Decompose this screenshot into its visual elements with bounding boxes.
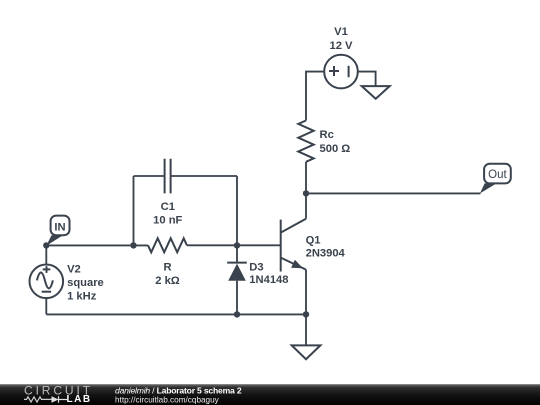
IN flag	[46, 216, 69, 246]
svg-text:square: square	[67, 277, 104, 289]
svg-text:C1: C1	[161, 201, 175, 213]
svg-text:IN: IN	[54, 222, 65, 234]
svg-text:10 nF: 10 nF	[153, 214, 182, 226]
wire from V1 right terminal to ground	[358, 72, 376, 87]
voltage source V2 circle	[30, 265, 64, 299]
Q1 base bar	[280, 220, 282, 272]
wire V2 bottom to bottom rail	[45, 298, 47, 314]
V1 minus bar	[348, 66, 350, 77]
svg-text:D3: D3	[249, 261, 263, 273]
resistor Rc	[298, 121, 313, 162]
svg-text:R: R	[163, 261, 171, 273]
C1 top wire right segment	[171, 175, 237, 177]
svg-text:2N3904: 2N3904	[306, 247, 346, 259]
wire D3 node down to cathode bar	[236, 245, 238, 262]
V2 plus sign	[43, 266, 51, 273]
diode D3 cathode bar	[227, 262, 247, 264]
svg-text:2 kΩ: 2 kΩ	[155, 275, 180, 287]
svg-text:Out: Out	[488, 169, 507, 181]
Q1 emitter wire down to bottom node	[305, 270, 307, 315]
V2 sine wave	[37, 272, 53, 288]
C1 right riser wire	[236, 176, 238, 245]
svg-text:12 V: 12 V	[329, 40, 353, 52]
node at emitter / ground	[303, 311, 309, 317]
base wire from IN node to resistor R	[46, 244, 148, 246]
ground symbol at emitter	[292, 345, 321, 359]
Q1 collector wire from node	[305, 193, 307, 218]
C1 top wire left segment	[134, 175, 165, 177]
wire R right to Q1 base	[187, 244, 281, 246]
Q1 emitter arrowhead	[291, 260, 303, 269]
svg-text:Q1: Q1	[306, 235, 321, 247]
svg-text:LAB: LAB	[67, 394, 92, 405]
Q1 collector diagonal	[281, 219, 306, 233]
node at collector / Rc / Out	[303, 190, 309, 196]
svg-text:Rc: Rc	[320, 129, 334, 141]
svg-text:500 Ω: 500 Ω	[320, 143, 351, 155]
svg-text:1 kHz: 1 kHz	[67, 290, 97, 302]
node at IN	[43, 242, 49, 248]
node at D3 top junction	[234, 242, 240, 248]
logo resistor zigzag	[24, 397, 52, 402]
node at D3 bottom	[234, 311, 240, 317]
V2 minus sign	[42, 291, 51, 293]
node at C1 left junction	[130, 242, 136, 248]
wire IN node down to V2 top	[45, 245, 47, 264]
svg-text:V2: V2	[67, 263, 81, 275]
Out flag	[480, 164, 511, 194]
voltage source V1 circle	[324, 55, 358, 89]
logo diode symbol	[52, 396, 59, 403]
wire Rc bottom to collector node	[305, 162, 307, 194]
V1 plus sign	[329, 66, 339, 76]
svg-text:http://circuitlab.com/cqbaguy: http://circuitlab.com/cqbaguy	[115, 395, 220, 404]
svg-text:V1: V1	[334, 26, 348, 38]
footer black bar	[0, 384, 540, 405]
diode D3 triangle	[228, 264, 246, 281]
wire D3 anode down to bottom rail	[236, 281, 238, 315]
Q1 emitter diagonal	[281, 258, 306, 270]
ground symbol at V1	[362, 86, 390, 99]
resistor R	[148, 238, 187, 252]
svg-text:danielmih / Laborator 5 schema: danielmih / Laborator 5 schema 2	[115, 386, 242, 396]
svg-text:1N4148: 1N4148	[249, 274, 288, 286]
wire collector node to Out flag	[306, 192, 481, 194]
wire bottom node to ground	[305, 314, 307, 345]
capacitor C1 plates	[165, 159, 171, 194]
C1 left riser wire	[133, 176, 135, 245]
wire from V1 left terminal to Rc top	[306, 72, 324, 121]
bottom rail wire	[46, 313, 306, 315]
